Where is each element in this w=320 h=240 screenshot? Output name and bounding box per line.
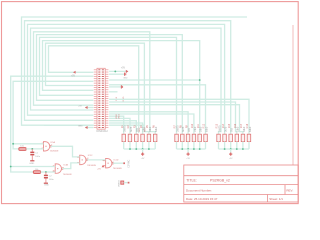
wire R13 to rail: [218, 142, 220, 149]
wire R14 to rail: [224, 142, 226, 149]
op op-amp gate IC1A (74LS00 NAND): [44, 142, 50, 151]
op op-amp gate IC1D (74LS00 NAND): [106, 159, 112, 168]
node net flag IC1D output: [123, 162, 125, 164]
wire R11 to rail: [199, 142, 201, 149]
wire net to R1 (DAC1 bit1): [109, 116, 124, 134]
wire JP1 to net flag: [124, 182, 128, 184]
wire net to R9 (DAC2 bit3): [109, 112, 188, 134]
node rail junction DAC2: [181, 148, 183, 150]
svg-text:60k0: 60k0: [249, 126, 252, 132]
wire net to R12 (DAC2 bit6): [109, 85, 205, 134]
wire R19 to IC1A input 2: [26, 148, 43, 150]
svg-text:IC1D: IC1D: [114, 159, 119, 161]
svg-text:C1: C1: [35, 152, 39, 154]
wire bus net 2 (connector to DAC): [25, 21, 231, 135]
wire net to IC1A lower input: [13, 81, 93, 149]
svg-text:74LS00N: 74LS00N: [63, 174, 72, 176]
wire rail to +5V symbol DAC3: [230, 149, 232, 152]
svg-text:100n: 100n: [49, 179, 55, 181]
resistor R20: [33, 171, 40, 174]
ground symbol below C1: [30, 160, 34, 162]
wire bus net 4 (connector to DAC): [31, 28, 222, 134]
wire net to R2 (DAC1 bit2): [109, 118, 130, 134]
wire bus net 8 (connector to DAC): [43, 41, 200, 135]
supply GND symbol 2: [120, 85, 122, 88]
node net flag JP1: [128, 182, 130, 184]
svg-text:CSYNC: CSYNC: [129, 159, 131, 167]
wire net to IC1B lower input: [11, 76, 94, 172]
svg-text:74LS00N: 74LS00N: [87, 165, 96, 167]
wire IC1B output to IC1C input: [62, 163, 79, 169]
wire bus net 3 (connector to DAC): [28, 24, 225, 134]
wire long net under X1: [44, 124, 94, 126]
title block REV divider: [284, 185, 286, 195]
resistor R1: [122, 134, 126, 141]
wire R7 to rail: [176, 142, 178, 149]
wire bus net 6 (connector to DAC): [37, 35, 183, 135]
node rail junction DAC2: [187, 148, 189, 150]
svg-text:15k0: 15k0: [143, 126, 146, 132]
ground symbol below C2: [44, 182, 48, 184]
node rail junction DAC1: [135, 148, 137, 150]
node junction C2 tap: [45, 171, 47, 173]
wire net to R4 (DAC1 bit4): [109, 123, 143, 134]
resistor R2: [128, 134, 132, 141]
supply +5V cross symbol DAC2: [187, 153, 190, 156]
wire IC1A input 1: [13, 143, 43, 145]
connector X1 body: [97, 68, 105, 129]
wire GND2 net right of X1: [109, 86, 121, 88]
svg-text:30k0: 30k0: [149, 126, 152, 132]
svg-text:DIN41612: DIN41612: [97, 130, 109, 133]
resistor R16: [235, 134, 239, 141]
op op-amp gate IC1B (74LS00 NAND): [55, 164, 61, 173]
resistor R19: [19, 148, 26, 151]
wire bus net 9 (connector to DAC): [46, 43, 149, 134]
svg-text:+5V: +5V: [78, 105, 82, 107]
wire rail DAC1: [124, 148, 156, 150]
wire bus net 10 (connector to DAC): [49, 46, 139, 133]
wire rail to +5V symbol DAC1: [142, 149, 144, 152]
resistor R9: [186, 134, 190, 141]
svg-text:+5V: +5V: [97, 168, 101, 170]
svg-text:+5V: +5V: [121, 68, 126, 70]
svg-text:VID1: VID1: [118, 113, 120, 119]
svg-text:7k5: 7k5: [136, 127, 139, 132]
title block Sheet divider: [267, 195, 269, 203]
node rail junction DAC1: [129, 148, 131, 150]
resistor R8: [181, 134, 185, 141]
wire IC1B input 1: [11, 166, 56, 168]
svg-text:GND: GND: [44, 185, 49, 187]
node rail junction DAC1: [148, 148, 150, 150]
svg-text:GND: GND: [78, 125, 83, 127]
svg-text:+5V: +5V: [141, 158, 145, 160]
wire net to R3 (DAC1 bit3): [109, 121, 136, 135]
svg-text:+5V: +5V: [71, 75, 76, 77]
wire net joins R11 feed: [109, 79, 200, 81]
svg-text:GND: GND: [123, 77, 128, 79]
resistor R12: [204, 134, 208, 141]
resistor R10: [192, 134, 196, 141]
svg-text:+5V: +5V: [229, 158, 233, 160]
wire stub to supply arrow A: [85, 107, 93, 109]
wire R2 to rail: [129, 142, 131, 149]
resistor R18: [247, 134, 251, 141]
node rail junction DAC3: [230, 148, 232, 150]
svg-text:C2: C2: [49, 175, 53, 177]
wire R1 to rail: [123, 142, 125, 149]
svg-text:Date: 25.10.2019 15:47: Date: 25.10.2019 15:47: [186, 197, 218, 201]
wire R4 to rail: [142, 142, 144, 149]
frame border: [2, 2, 299, 204]
resistor R3: [135, 134, 139, 141]
X1 pin name texts column c: [102, 69, 104, 128]
wire R18 to rail: [248, 142, 250, 149]
svg-text:GND: GND: [29, 163, 34, 165]
node rail junction DAC1: [142, 148, 144, 150]
svg-text:1k875: 1k875: [124, 125, 127, 132]
connector JP1: [121, 181, 124, 184]
wire R3 to rail: [135, 142, 137, 149]
resistor R4: [141, 134, 145, 141]
wire R9 to rail: [187, 142, 189, 149]
wire net to R16 (DAC3 bit4): [109, 102, 237, 134]
wire R10 to rail: [193, 142, 195, 149]
capacitor C2: [45, 172, 47, 175]
wire R15 to rail: [230, 142, 232, 149]
wire rail to +5V symbol DAC2: [187, 149, 189, 152]
svg-text:PS2RGB_v2: PS2RGB_v2: [210, 179, 230, 183]
X1 pin stubs left: [94, 70, 97, 128]
svg-text:Sheet: 1/1: Sheet: 1/1: [269, 197, 283, 201]
resistor R7: [175, 134, 179, 141]
wire net to R10 (DAC2 bit4): [109, 114, 194, 134]
title block row line 1: [184, 175, 298, 177]
title block outline: [184, 165, 298, 202]
node junction IC1B branch: [10, 166, 12, 168]
svg-text:REV:: REV:: [286, 188, 293, 192]
supply +5V cross symbol DAC3: [229, 153, 232, 156]
wire R6 to rail: [154, 142, 156, 149]
wire net long row under X1 right: [109, 124, 144, 126]
svg-text:74LS00N: 74LS00N: [50, 151, 59, 153]
supply +5V cross symbol DAC1: [141, 153, 144, 156]
svg-text:+5V: +5V: [186, 158, 190, 160]
title block row line 3: [184, 194, 298, 196]
resistor R14: [223, 134, 227, 141]
wire R16 to rail: [236, 142, 238, 149]
wire rail DAC2: [177, 148, 206, 150]
wire rail DAC3: [219, 148, 250, 150]
frame inner right line: [292, 25, 294, 165]
svg-text:CLK: CLK: [116, 96, 118, 101]
wire bus net 1 (connector to DAC): [22, 17, 248, 125]
X1 pin stubs right: [105, 70, 108, 128]
resistor R11: [198, 134, 202, 141]
X1 pin name texts column a: [98, 69, 100, 128]
svg-text:R15: R15: [228, 123, 231, 128]
svg-text:IC1A: IC1A: [50, 141, 55, 144]
svg-text:60k0: 60k0: [205, 126, 208, 132]
wire R12 to rail: [205, 142, 207, 149]
node junction IC1A branch: [12, 143, 14, 145]
wire +5V net right of X1: [109, 70, 126, 72]
wire net to R18 (DAC3 bit6): [109, 99, 249, 134]
title block row line 2: [184, 184, 298, 186]
supply +5V arrow at IC1D input 13: [102, 165, 105, 168]
svg-text:VIDEO: VIDEO: [119, 180, 121, 187]
wire R20 to IC1B input 2: [41, 171, 56, 173]
wire short stub row 10: [109, 91, 117, 93]
wire IC1C output to IC1D input: [87, 159, 106, 161]
svg-text:Document Number:: Document Number:: [186, 188, 212, 192]
node junction R11 feed: [199, 79, 201, 81]
wire R8 to rail: [181, 142, 183, 149]
svg-text:74LS00N: 74LS00N: [113, 168, 122, 170]
wire bus net 5 (connector to DAC): [34, 32, 156, 134]
svg-text:100n: 100n: [35, 156, 41, 158]
node rail junction DAC3: [236, 148, 238, 150]
resistor R5: [147, 134, 151, 141]
node junction on +5V wire: [114, 70, 116, 72]
wire R17 to rail: [242, 142, 244, 149]
resistor R13: [217, 134, 221, 141]
svg-text:IC1C: IC1C: [88, 155, 93, 157]
wire stub to supply arrow B: [85, 127, 93, 129]
resistor R6: [153, 134, 157, 141]
supply arrow flag B (left of X1): [85, 126, 88, 129]
op op-amp gate IC1C (74LS00 NAND): [80, 155, 86, 164]
svg-text:TITLE:: TITLE:: [186, 179, 197, 183]
supply +5V arrow symbol left: [73, 71, 76, 74]
resistor R15: [229, 134, 233, 141]
node rail junction DAC3: [242, 148, 244, 150]
supply GND symbol (rotated bar): [124, 73, 126, 76]
wire GND net right of X1: [109, 73, 124, 75]
supply arrow flag A (left of X1): [85, 106, 88, 109]
node rail junction DAC2: [199, 148, 201, 150]
svg-text:IC1B: IC1B: [63, 165, 68, 167]
node rail junction DAC2: [193, 148, 195, 150]
supply +5V arrow symbol right: [126, 70, 129, 73]
wire net to R17 (DAC3 bit5): [109, 105, 243, 135]
wire IC1A output to IC1C input: [51, 146, 80, 157]
wire bus net 7 (connector to DAC): [40, 37, 177, 134]
wire IC1D output: [113, 162, 124, 164]
wire R5 to rail: [148, 142, 150, 149]
resistor R17: [241, 134, 245, 141]
svg-text:3k75: 3k75: [130, 126, 133, 132]
node rail junction DAC3: [224, 148, 226, 150]
node junction C1 tap: [31, 148, 33, 150]
capacitor C1: [31, 149, 33, 152]
svg-text:60k0: 60k0: [155, 126, 158, 132]
